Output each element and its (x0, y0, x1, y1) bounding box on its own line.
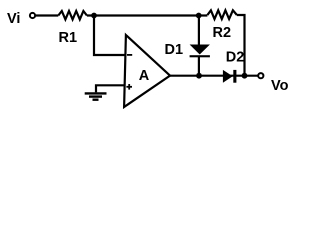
svg-text:Vo: Vo (271, 78, 289, 94)
svg-text:D2: D2 (226, 50, 245, 66)
svg-text:A: A (139, 68, 150, 84)
svg-text:R2: R2 (213, 25, 232, 41)
svg-text:D1: D1 (165, 42, 184, 58)
svg-text:R1: R1 (59, 30, 78, 46)
svg-text:Vi: Vi (7, 11, 20, 27)
